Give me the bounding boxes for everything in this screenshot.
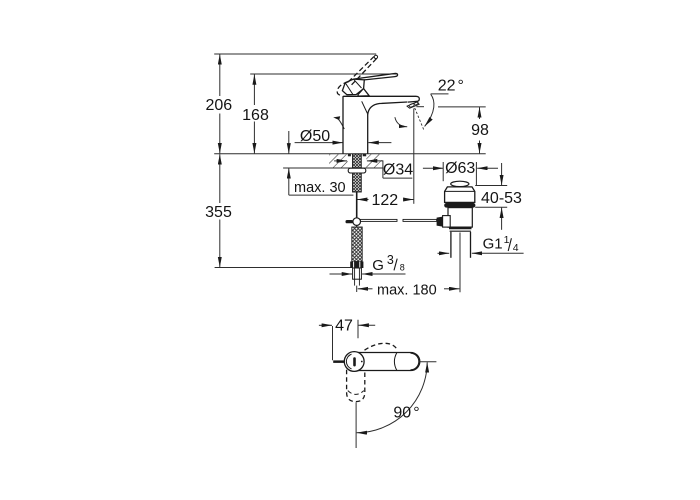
svg-text:1: 1 <box>504 234 510 246</box>
lever raised dashed <box>337 57 376 96</box>
drain body <box>448 208 472 228</box>
svg-text:122: 122 <box>371 192 398 209</box>
plan spout tab <box>333 360 344 363</box>
dimension G1 1/4 <box>438 234 524 254</box>
dimension 22deg with arc <box>425 77 464 126</box>
dimension 47 <box>319 317 375 360</box>
plan centerline vertical <box>355 402 357 448</box>
dimension 355 <box>205 154 232 267</box>
lever neck <box>358 89 369 97</box>
plan lever cap seam <box>411 353 419 370</box>
svg-text:168: 168 <box>242 107 269 124</box>
plan lever stadium <box>346 353 420 371</box>
dimension max.180 <box>358 282 460 298</box>
svg-text:Ø34: Ø34 <box>383 162 413 179</box>
svg-text:355: 355 <box>205 204 232 221</box>
plan dashed lever up <box>365 343 398 350</box>
aerator <box>407 102 419 109</box>
handle swivel arrow left <box>339 119 345 129</box>
svg-text:22°: 22° <box>438 77 464 94</box>
svg-text:G1: G1 <box>483 236 503 253</box>
spout inner diagonal <box>362 101 368 113</box>
horizontal pop-up rod <box>361 219 437 221</box>
plan dot <box>361 361 363 363</box>
dimension Ø50 <box>295 128 392 145</box>
plan centerline horizontal <box>420 361 437 363</box>
lever raised tip circle <box>374 55 377 58</box>
threaded shank <box>353 154 362 192</box>
dimension 122 <box>357 109 414 210</box>
lever solid <box>342 73 397 94</box>
cup rings <box>449 227 472 229</box>
svg-text:40-53: 40-53 <box>481 190 522 207</box>
svg-text:Ø50: Ø50 <box>300 128 330 145</box>
svg-text:98: 98 <box>471 122 489 139</box>
o-ring <box>444 203 475 208</box>
faucet spout top and tip <box>343 96 419 102</box>
svg-text:47: 47 <box>335 317 353 334</box>
dimension 90deg arc <box>357 362 428 433</box>
water stream line <box>415 108 425 131</box>
dimension 168 <box>242 74 269 153</box>
svg-text:90°: 90° <box>393 405 419 422</box>
plug dome <box>451 181 469 186</box>
pop-up rod joint <box>346 218 361 227</box>
tailpipe <box>450 232 452 258</box>
faucet body left edge <box>342 97 344 154</box>
flange <box>445 187 475 203</box>
deck hatching left <box>329 154 348 167</box>
spout flow arrow <box>395 117 407 127</box>
dimension Ø63 <box>423 160 498 186</box>
extension line 168 upper reference <box>250 73 397 75</box>
dimension 40-53 <box>475 163 522 230</box>
plan lever left seam <box>394 353 396 371</box>
svg-text:max. 180: max. 180 <box>377 282 437 298</box>
clamp knob <box>437 217 443 227</box>
center line <box>459 233 461 293</box>
base gasket marks <box>348 154 351 156</box>
plan body circle <box>344 352 364 372</box>
svg-text:3: 3 <box>387 253 394 267</box>
deck hatching right <box>366 154 381 167</box>
side port <box>443 216 451 228</box>
hose nut <box>350 262 363 269</box>
deck bottom line <box>283 167 383 169</box>
svg-text:max. 30: max. 30 <box>294 180 346 196</box>
svg-text:Ø63: Ø63 <box>445 160 475 177</box>
plan body inner rim <box>346 354 351 369</box>
pop-up rod vertical <box>356 192 358 218</box>
dimension 98 <box>416 107 489 154</box>
svg-text:8: 8 <box>400 262 405 272</box>
svg-text:G: G <box>372 257 384 274</box>
svg-text:4: 4 <box>513 242 519 254</box>
extension line top (206 upper reference) <box>214 53 376 55</box>
hose end reference line (355 bottom) <box>215 267 352 269</box>
svg-text:206: 206 <box>205 97 232 114</box>
faucet body right edge <box>367 114 369 154</box>
drain pop-up waste <box>437 181 476 292</box>
plan dashed lever down <box>347 370 365 402</box>
faucet spout underside curve <box>368 102 408 115</box>
G3/8 tube <box>353 268 362 292</box>
dimension G3/8 <box>330 253 406 274</box>
dimension max.30 <box>289 131 354 196</box>
shank washer <box>348 168 366 173</box>
plan slot <box>353 357 356 366</box>
countertop reference line <box>214 153 486 155</box>
dimension Ø34 <box>334 160 413 178</box>
dimension 206 <box>205 54 232 153</box>
supply hose braided <box>352 227 362 262</box>
